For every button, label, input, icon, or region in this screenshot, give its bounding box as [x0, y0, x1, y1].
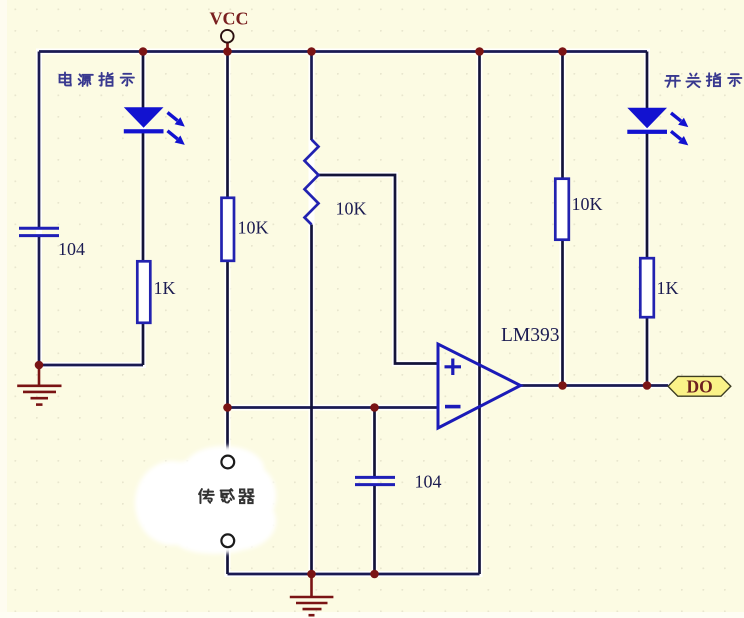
capacitor C2 104 — [355, 477, 395, 484]
junction inverting node / sensor — [223, 403, 232, 412]
LED D1 — [124, 107, 164, 133]
junction ground rail / C2 — [370, 570, 379, 579]
wire VCC to potentiometer top — [310, 52, 313, 141]
wire LED2 to right R 1K — [646, 133, 649, 259]
wire opamp supply vertical — [478, 52, 481, 575]
wire left branch vertical (C1) — [38, 52, 41, 228]
svg-text:DO: DO — [687, 377, 713, 397]
junction output / right 1K — [643, 381, 652, 390]
label 电源指示 — [60, 72, 134, 86]
LED D2 light arrows — [671, 113, 688, 145]
wire potentiometer bottom to ground rail — [310, 225, 313, 575]
LED D1 light arrows — [168, 113, 185, 145]
svg-text:104: 104 — [415, 472, 442, 492]
power port VCC — [221, 30, 234, 52]
ground symbol center — [290, 574, 334, 615]
sensor pin 1 — [221, 456, 234, 469]
capacitor C1 104 — [19, 228, 59, 235]
wire wiper to non-inverting input — [319, 175, 439, 364]
wire VCC to LED2 — [646, 52, 649, 109]
wire right R 10K to output — [561, 240, 564, 386]
ground symbol left — [17, 365, 61, 405]
sensor pin 2 — [221, 534, 234, 547]
junction VCC rail / R2 — [223, 47, 232, 56]
junction inverting node / C2 — [370, 403, 379, 412]
resistor R4 1K right — [640, 258, 654, 317]
output port DO — [668, 376, 731, 396]
svg-text:10K: 10K — [336, 199, 367, 219]
wire sensor pin2 to ground rail — [226, 547, 229, 574]
junction output / right 10K — [558, 381, 567, 390]
wire VCC to right R 10K — [561, 52, 564, 180]
junction VCC rail / LED1 — [139, 47, 148, 56]
wire R 1K bottom to corner — [142, 323, 145, 366]
label 开关指示 — [665, 73, 741, 87]
wire C2 branch — [373, 408, 376, 575]
wire ground rail bottom — [228, 573, 480, 576]
wire bottom-left horizontal — [39, 364, 143, 367]
sensor cloud — [135, 446, 276, 554]
wire below C1 — [38, 237, 41, 366]
junction VCC rail / potentiometer — [307, 47, 316, 56]
potentiometer RP1 10K — [305, 140, 319, 225]
svg-text:VCC: VCC — [210, 9, 249, 29]
wire VCC top rail — [39, 50, 647, 53]
wire inverting input horizontal — [228, 406, 439, 409]
junction VCC rail / opamp supply — [475, 47, 484, 56]
svg-text:LM393: LM393 — [501, 325, 560, 346]
wire right R 1K to output — [646, 317, 649, 386]
wire R2 bottom to inverting node — [226, 261, 229, 456]
op-amp U1 LM393 — [438, 344, 521, 428]
wire LED1 to R 1K — [142, 132, 145, 262]
svg-text:1K: 1K — [154, 278, 176, 298]
resistor R2 10K — [222, 198, 235, 261]
junction left ground node — [35, 361, 44, 370]
wire VCC to R2 10K — [226, 52, 229, 199]
svg-text:10K: 10K — [238, 218, 269, 238]
wire white halos — [39, 52, 668, 575]
resistor R1 10K right — [555, 179, 569, 240]
junction ground rail / potentiometer — [307, 570, 316, 579]
junction VCC rail / right 10K — [558, 47, 567, 56]
label 传感器 — [199, 489, 254, 503]
wire LED1 branch top — [142, 52, 145, 109]
LED D2 — [627, 108, 667, 134]
svg-text:10K: 10K — [572, 194, 603, 214]
svg-text:104: 104 — [58, 239, 85, 259]
resistor R3 1K — [137, 261, 150, 323]
wire opamp output to DO — [521, 384, 669, 387]
svg-text:1K: 1K — [657, 278, 679, 298]
